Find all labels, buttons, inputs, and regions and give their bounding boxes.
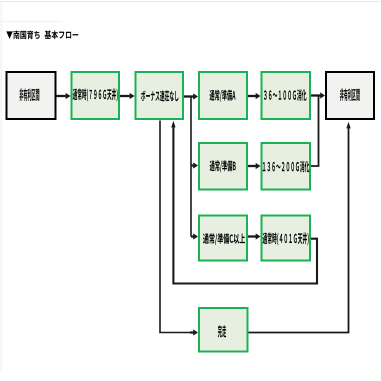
arrow into G bbox=[191, 164, 194, 166]
arrow C to D bbox=[184, 95, 194, 97]
faint cell ruling under title bbox=[0, 21, 62, 23]
box C ボーナス連荘なし bbox=[136, 72, 184, 119]
wire stem up into C bbox=[172, 126, 174, 129]
box F 非有利区間 bbox=[326, 72, 374, 119]
box A 非有利区間 bbox=[7, 72, 56, 119]
box J 通常時(401G天井) bbox=[262, 216, 311, 261]
box D 通常/準備A bbox=[199, 72, 247, 119]
arrow D to E bbox=[248, 95, 257, 97]
text in box G bbox=[210, 160, 236, 172]
arrow into K bbox=[190, 331, 194, 333]
wire branch from C-D arrow down to rows 2,3 bbox=[190, 97, 192, 237]
box H 136~200G消化 bbox=[262, 143, 311, 190]
arrow E to F bbox=[311, 94, 321, 96]
text in box E bbox=[264, 89, 307, 101]
faint screenshot frame left bbox=[0, 2, 2, 372]
text in box H bbox=[263, 161, 310, 173]
text in box J bbox=[263, 233, 309, 246]
box K 完走 bbox=[199, 308, 248, 352]
faint screenshot frame top bbox=[0, 1, 381, 3]
box I 通常/準備C以上 bbox=[199, 216, 247, 261]
text in box F bbox=[340, 88, 360, 101]
text in box I bbox=[203, 233, 245, 244]
wire H up to E-F arrow bbox=[311, 96, 319, 167]
arrowhead up into C bbox=[171, 121, 175, 128]
text in box C bbox=[141, 90, 178, 101]
title 南国育ち 基本フロー bbox=[6, 30, 78, 39]
arrowhead up into F bbox=[346, 122, 350, 129]
box G 通常/準備B bbox=[199, 143, 247, 190]
box B 通常時(796G天井) bbox=[72, 72, 120, 119]
arrow G to H bbox=[248, 165, 257, 167]
text in box A bbox=[19, 88, 39, 101]
wire C down to K bbox=[160, 121, 192, 333]
text in box K bbox=[218, 325, 226, 337]
arrow A to B bbox=[57, 95, 67, 97]
box E 36~100G消化 bbox=[262, 72, 311, 119]
arrow B to C bbox=[120, 95, 131, 97]
arrow I to J bbox=[248, 235, 257, 237]
text in box D bbox=[209, 90, 235, 102]
arrow into I bbox=[191, 235, 194, 237]
text in box B bbox=[73, 89, 118, 102]
wire K right and up to F bbox=[249, 128, 349, 333]
wire J loop back to C bbox=[173, 126, 317, 284]
